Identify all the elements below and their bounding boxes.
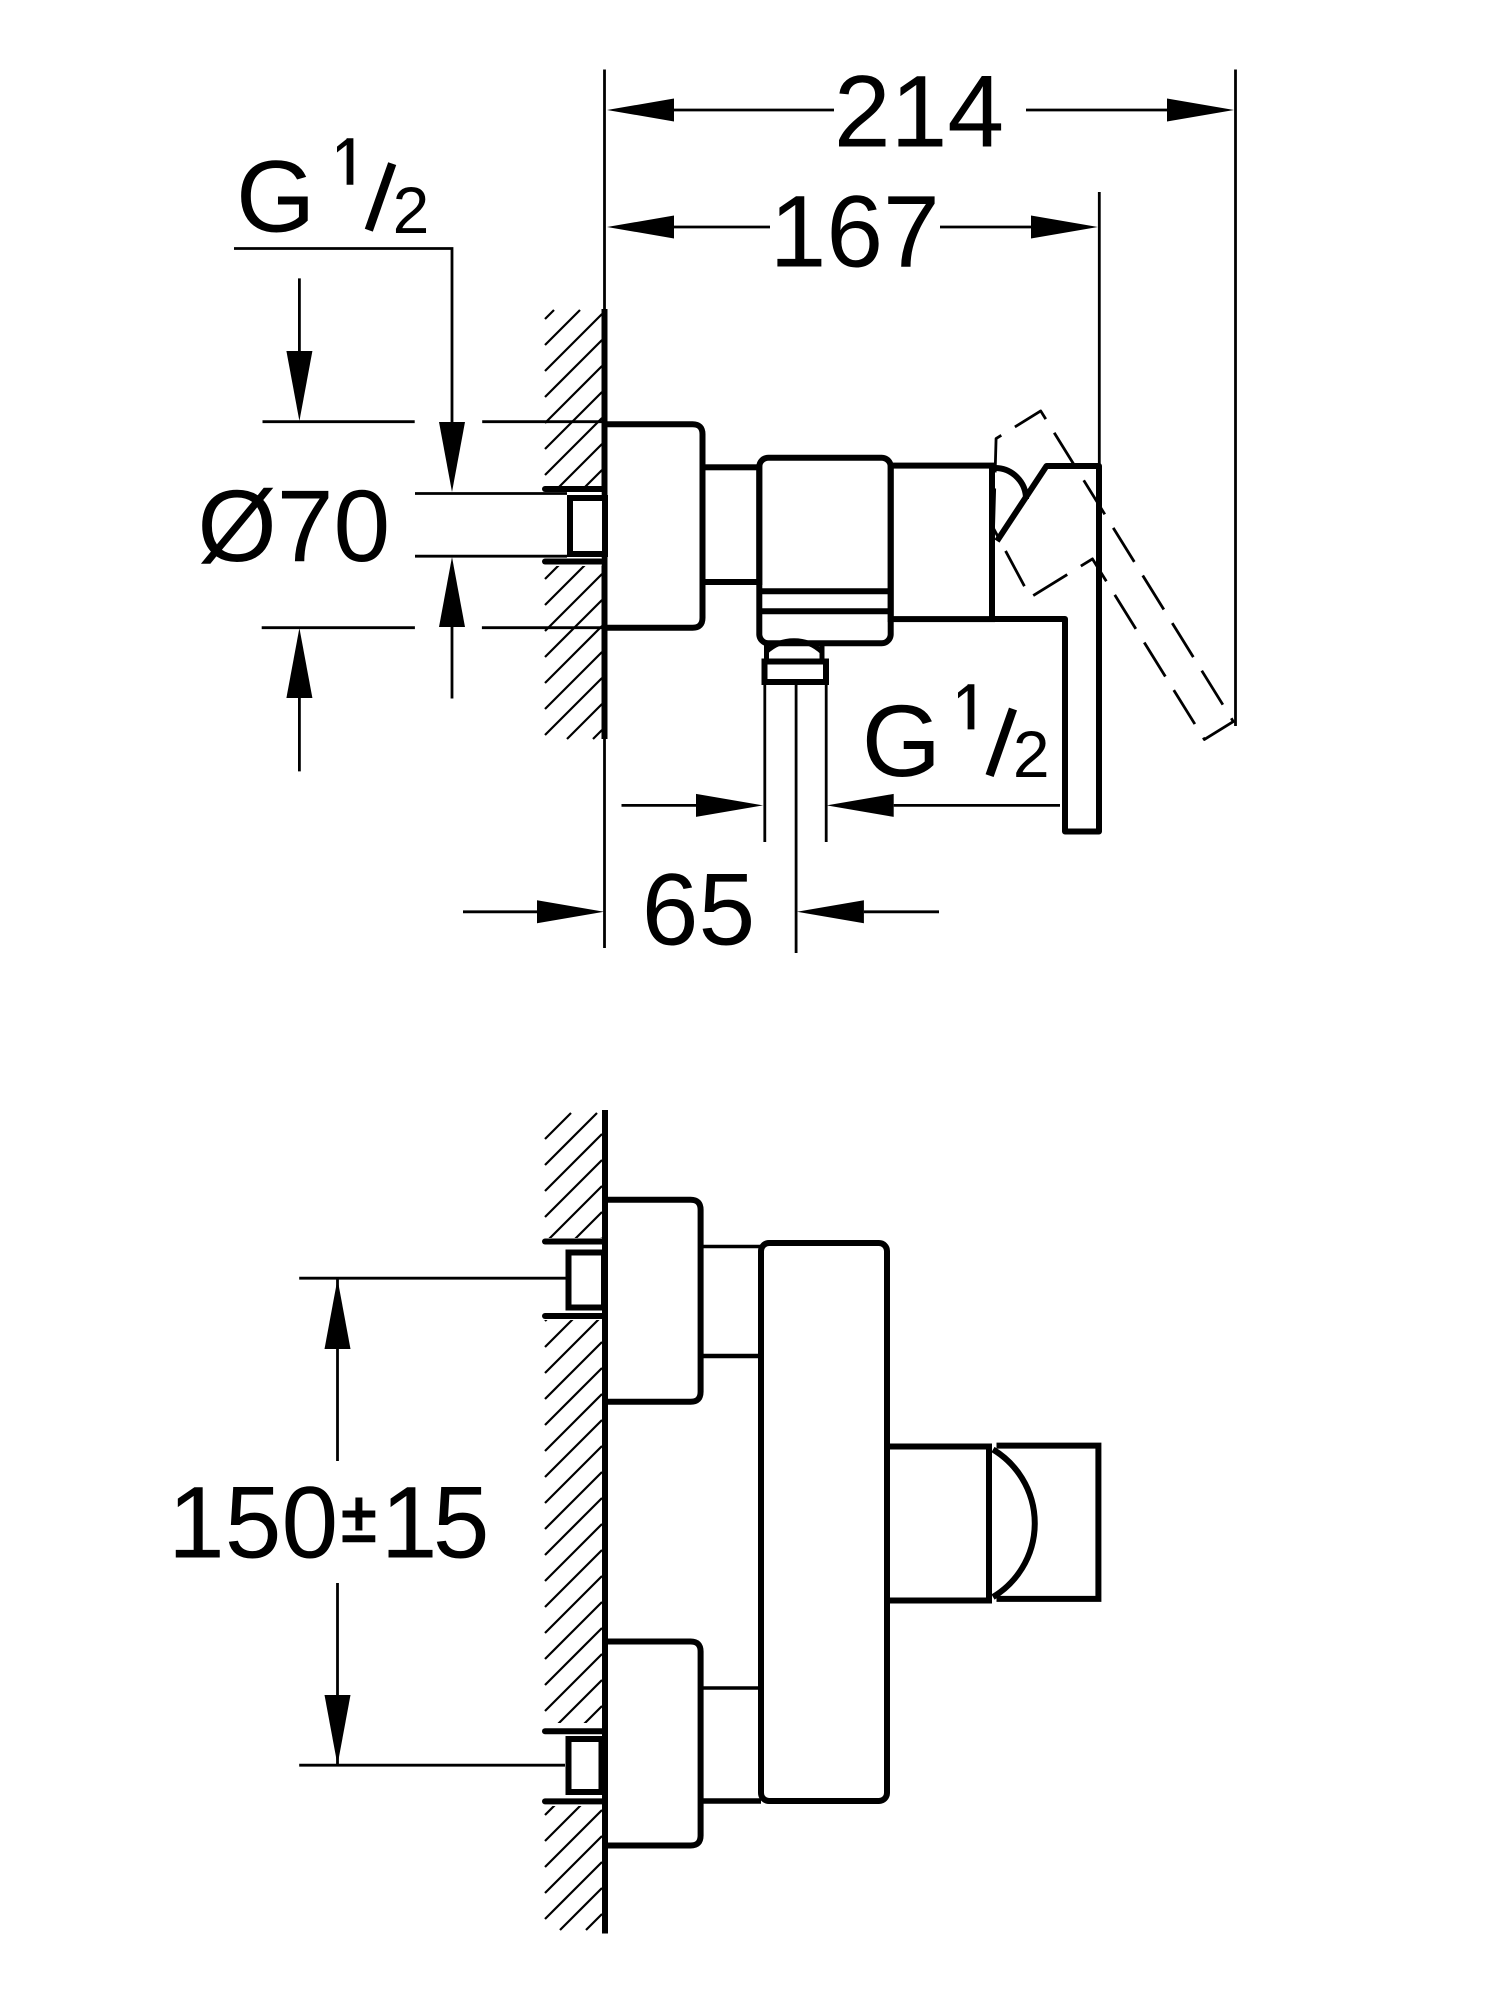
hose outlet pipe right line [825, 685, 828, 842]
white knockout behind pipe flange (clears hatch) [543, 486, 602, 566]
wall extension line lower (thin part below hatch) [603, 739, 606, 948]
supply pipe (thin lines through wall) [415, 492, 567, 495]
dimension 167 line + arrows [607, 216, 1098, 239]
outlet boss (front view) [887, 1447, 989, 1601]
white knockout behind upper flange (clears hatch) [543, 1238, 602, 1320]
dimension text 150±15 [168, 1465, 490, 1579]
svg-text:G: G [236, 140, 315, 254]
Ø70 bottom arrow (up, tip on lower extension line) [286, 628, 312, 698]
svg-text:150: 150 [168, 1465, 338, 1579]
cartridge dome arc [995, 468, 1026, 499]
svg-text:2: 2 [393, 173, 430, 247]
white knockout behind lower flange (clears hatch) [543, 1723, 602, 1806]
leader line from G 1/2 to pipe thread [234, 249, 452, 423]
svg-text:214: 214 [834, 55, 1004, 169]
wall extension line upper (thin part above hatch) [603, 70, 606, 310]
lever handle (solid, closed position) [992, 466, 1099, 832]
label G 1/2 (upper left) [236, 138, 429, 253]
dimension 65 line + arrows [463, 900, 939, 923]
svg-text:167: 167 [770, 174, 940, 288]
lower connector [701, 1686, 761, 1690]
svg-text:5: 5 [433, 1465, 490, 1579]
wall surface line (front view) [602, 1110, 608, 1934]
wall hatching (top view) [545, 310, 602, 739]
shower hose union below body: dome [766, 641, 822, 652]
connector between escutcheon and valve body [703, 467, 760, 582]
G 1/2 thread arrow up (tip on pipe bottom) [439, 557, 465, 627]
leader arrow down (tip on pipe top) [439, 422, 465, 492]
upper escutcheon (front view) [605, 1200, 701, 1402]
outlet nut (front view) [997, 1446, 1099, 1599]
svg-text:Ø70: Ø70 [197, 469, 390, 583]
svg-text:65: 65 [642, 853, 755, 967]
lower inlet nipple [569, 1739, 602, 1792]
dimension 214 line + arrows [607, 99, 1234, 122]
union flange top bar [545, 486, 602, 492]
lever handle (dashed, open position) [950, 411, 1234, 778]
svg-text:2: 2 [1013, 717, 1050, 791]
body trim ring lines [759, 588, 890, 594]
union flange bottom bar [545, 559, 601, 565]
valve body (side view) [759, 458, 890, 644]
lower union flange bars [545, 1728, 602, 1734]
dimension 167 right extension line [1098, 192, 1101, 464]
Ø70 dimension extension lines [262, 422, 604, 628]
lower escutcheon (front view) [605, 1642, 701, 1846]
svg-text:1: 1 [381, 1465, 438, 1579]
hose outlet pipe left line [763, 685, 766, 842]
upper union flange bars [545, 1239, 602, 1245]
valve body (front view) [761, 1243, 887, 1801]
dimension 150±15 line + arrows [336, 1278, 339, 1461]
wall surface line (thick, hatched zone) [602, 309, 608, 739]
dimension 214 right extension line [1234, 70, 1237, 727]
pipe union nipple (G 1/2 thread) [570, 498, 605, 554]
arrow tail below [451, 627, 454, 699]
wall hatching (front view) [545, 1113, 602, 1930]
hose pipe centre line (extension for 65) [795, 685, 798, 953]
hose union nut [765, 662, 827, 683]
outlet dome arc [993, 1450, 1035, 1598]
cartridge spacer (side view) [891, 466, 992, 619]
svg-text:G: G [862, 684, 941, 798]
Ø70 top arrow (down, tip on upper extension line) [298, 278, 301, 355]
upper inlet nipple [569, 1253, 605, 1308]
wall escutcheon (side view, D70 rosette) [605, 424, 703, 628]
label G 1/2 (lower, outlet thread) [862, 684, 1050, 798]
dimension 150±15 extension lines [299, 1277, 566, 1280]
upper connector [701, 1245, 761, 1249]
G 1/2 outlet dimension arrows [622, 794, 1061, 817]
